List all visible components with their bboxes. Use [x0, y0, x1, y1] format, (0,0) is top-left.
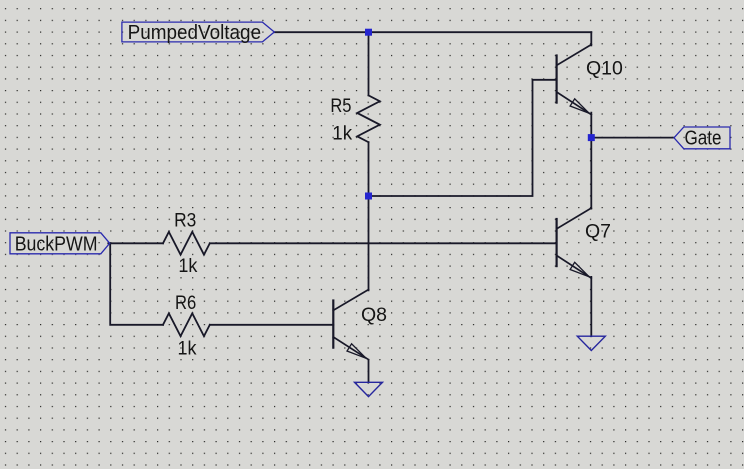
wire: Q10 collector lead — [590, 32, 592, 45]
svg-text:PumpedVoltage: PumpedVoltage — [128, 22, 262, 44]
wire: J2 right then up to Q10 base — [369, 80, 557, 196]
transistor Q8 — [333, 290, 368, 360]
wire: J3 to Gate — [591, 137, 674, 139]
node junction J3 — [588, 134, 595, 141]
wire: R3 to Q7 base — [210, 242, 557, 244]
svg-text:1k: 1k — [332, 122, 352, 144]
wire: Q10 emitter through J3 to Q7 collector — [590, 113, 592, 209]
svg-text:BuckPWM: BuckPWM — [15, 233, 98, 256]
wire: BuckPWM down branch to R6 row — [110, 243, 163, 324]
wire: Q7 emitter to ground — [590, 277, 592, 336]
wire: BuckPWM to R3 — [108, 242, 163, 244]
ground (Q7 emitter) — [577, 336, 605, 350]
port Gate — [674, 127, 730, 149]
svg-text:Q10: Q10 — [586, 58, 623, 80]
svg-text:Gate: Gate — [685, 127, 722, 149]
port BuckPWM — [10, 233, 110, 256]
svg-text:R5: R5 — [330, 95, 351, 117]
ground (Q8 emitter) — [355, 382, 383, 396]
node junction J2 — [365, 193, 372, 200]
resistor R6 — [163, 313, 210, 336]
svg-text:Q7: Q7 — [585, 221, 611, 243]
svg-text:1k: 1k — [178, 338, 197, 360]
wire: Q8 emitter to ground — [368, 360, 370, 383]
svg-text:1k: 1k — [178, 255, 197, 277]
wire: R5 to J2 to Q8 collector elbow — [368, 142, 370, 290]
wire: PumpedVoltage rail top — [274, 31, 591, 33]
resistor R3 — [163, 232, 210, 255]
transistor Q7 — [557, 208, 592, 278]
node junction J1 — [365, 29, 372, 36]
svg-text:Q8: Q8 — [361, 304, 387, 326]
svg-text:R3: R3 — [174, 209, 196, 231]
transistor Q10 — [557, 45, 592, 115]
wire: R6 to Q8 base — [210, 324, 333, 326]
port PumpedVoltage — [122, 22, 274, 44]
svg-text:R6: R6 — [175, 292, 196, 314]
wire: J1 down to R5 — [368, 32, 370, 95]
resistor R5 — [357, 95, 380, 142]
